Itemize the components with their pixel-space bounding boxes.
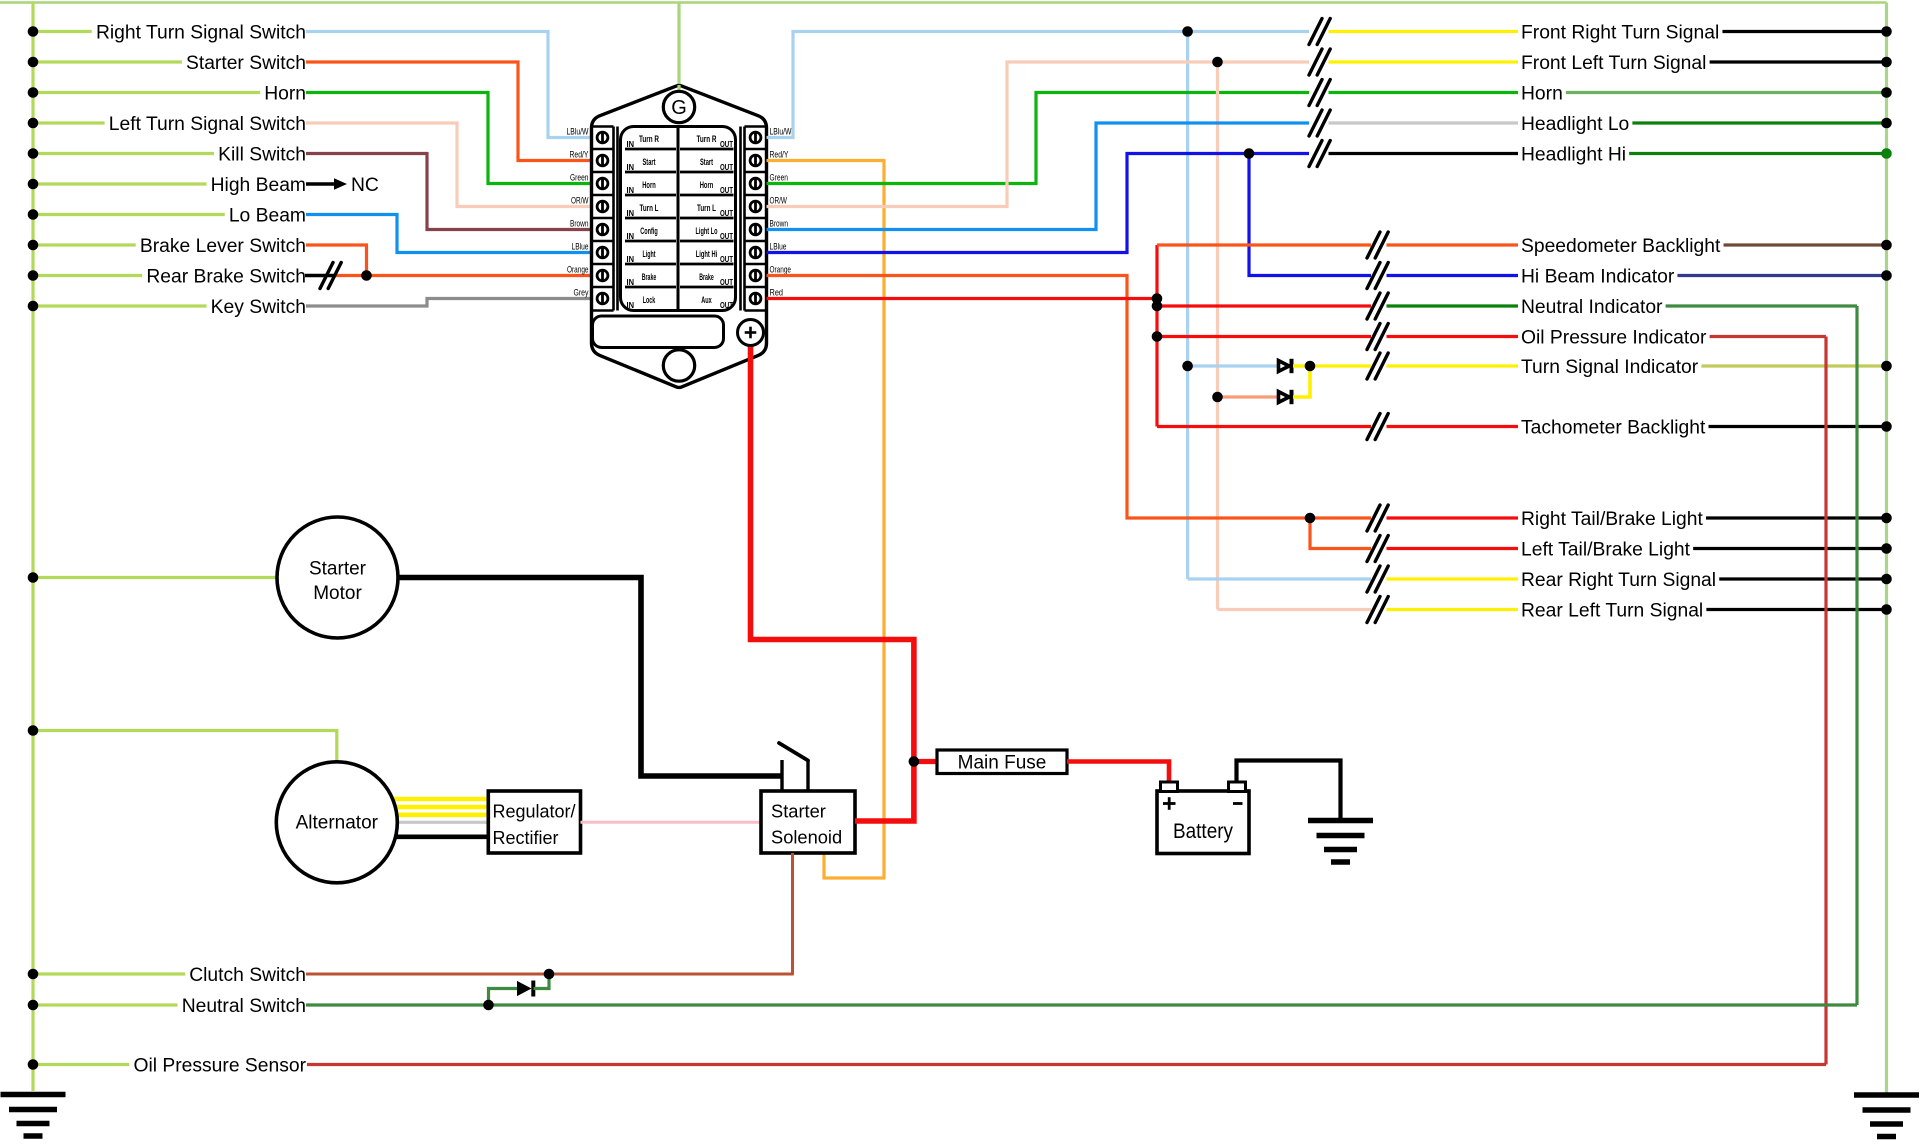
- svg-text:LBlue: LBlue: [572, 241, 589, 251]
- wire: Start OUT (Red/Y) to starter solenoid: [767, 161, 885, 879]
- junction on left rail (Clutch Switch): [28, 969, 39, 980]
- svg-text:Light Lo: Light Lo: [696, 226, 718, 236]
- wire: Turn L OUT (OR/W) to front left row: [767, 62, 1310, 207]
- wire color-change marks (Hi Beam Indicator): [1367, 263, 1380, 289]
- wire: to turn signal indicator: [1310, 364, 1371, 367]
- wire: Starter Switch to Start IN (Red/Y): [306, 62, 593, 161]
- svg-text:Orange: Orange: [770, 264, 792, 274]
- wire: Tachometer Backlight to rail: [1709, 425, 1887, 428]
- svg-text:Rear Right Turn Signal: Rear Right Turn Signal: [1521, 570, 1716, 591]
- separator left strip 6: [592, 286, 614, 289]
- wire: Lo Beam to Light IN (LBlue): [306, 215, 593, 253]
- svg-text:Battery: Battery: [1173, 820, 1233, 843]
- wire: ground stub to Left Turn Signal Switch: [33, 121, 105, 124]
- wire: Oil Pressure Indicator to rail: [1710, 335, 1826, 338]
- wire: Aux OUT (Red): [767, 297, 1158, 300]
- screw terminal IN pin 1: [597, 132, 608, 143]
- svg-text:Starter: Starter: [771, 801, 826, 822]
- controller module U1 (hexagonal body): [592, 86, 767, 388]
- svg-text:OUT: OUT: [720, 139, 734, 149]
- row line R0: [680, 148, 734, 151]
- separator left strip 3: [592, 217, 614, 220]
- junction: Tachometer Backlight at right rail: [1881, 421, 1892, 432]
- junction: Horn at right rail: [1881, 87, 1892, 98]
- starter motor M1: [277, 517, 398, 638]
- wire: Right Tail/Brake Light to rail: [1706, 516, 1886, 519]
- wire: to rear right turn signal: [1188, 577, 1371, 580]
- svg-text:Tachometer Backlight: Tachometer Backlight: [1521, 418, 1706, 439]
- separator left strip 1: [592, 171, 614, 174]
- svg-text:OUT: OUT: [720, 300, 734, 310]
- wire: ground stub to Brake Lever Switch: [33, 243, 136, 246]
- wire: Rear Left Turn Signal to rail: [1706, 608, 1886, 611]
- junction: brake lever + rear brake: [361, 270, 372, 281]
- junction: Front Right Turn Signal at right rail: [1881, 26, 1892, 37]
- separator right strip 3: [745, 217, 767, 220]
- U1 mounting hole (bottom circle): [663, 350, 694, 381]
- svg-text:Rear Left Turn Signal: Rear Left Turn Signal: [1521, 601, 1703, 622]
- svg-text:Solenoid: Solenoid: [771, 827, 842, 848]
- wire: into Tachometer Backlight label: [1387, 425, 1519, 428]
- wire: alternator to regulator (black): [392, 834, 488, 839]
- wire: Left Tail/Brake Light to rail: [1693, 547, 1886, 550]
- separator right strip 5: [745, 263, 767, 266]
- junction on left rail (Left Turn Signal Switch): [28, 118, 39, 129]
- svg-text:Horn: Horn: [264, 84, 306, 105]
- row line R1: [680, 171, 734, 174]
- row line R6: [680, 286, 734, 289]
- wire: regulator to solenoid battery sense (pink): [581, 821, 762, 824]
- wire: Light Hi OUT (LBlue) to headlight hi row: [767, 154, 1310, 253]
- row line R4: [680, 240, 734, 243]
- svg-text:IN: IN: [627, 162, 635, 172]
- wire color-change marks (Rear Right Turn Signal): [1367, 566, 1380, 592]
- solenoid switch blade (open): [779, 743, 808, 761]
- wire: OR/W drop to rear left turn: [1216, 62, 1219, 610]
- wire: drop to hi beam indicator: [1249, 154, 1371, 276]
- separator left strip 2: [592, 194, 614, 197]
- wire: main fuse to battery +: [1067, 762, 1169, 784]
- starter solenoid K1: [761, 791, 855, 853]
- battery + mark: [1163, 802, 1176, 805]
- wire: ground stub to Neutral Switch: [33, 1003, 178, 1006]
- left terminal strip of U1: [592, 125, 614, 128]
- separator right strip 1: [745, 171, 767, 174]
- wire: interlock diode link: [489, 989, 518, 1006]
- battery BT1: [1157, 791, 1249, 854]
- arrow: High Beam to NC (not connected): [306, 182, 336, 185]
- wire: into Rear Left Turn Signal label: [1387, 608, 1519, 611]
- right ground bus rail (vertical): [1885, 3, 1888, 1094]
- screw terminal OUT pin 2: [750, 155, 761, 166]
- row line L0: [625, 148, 676, 151]
- wire: oil pressure indicator drop to oil sensor: [1824, 337, 1827, 1065]
- row line L2: [625, 194, 676, 197]
- wire: Brake OUT (Orange) to right tail/brake: [767, 276, 1311, 519]
- wire: neutral switch line: [306, 1003, 1857, 1006]
- wire: to rear left turn signal: [1218, 608, 1372, 611]
- svg-text:Light Hi: Light Hi: [696, 249, 718, 259]
- wire: ground stub to Horn: [33, 91, 260, 94]
- svg-text:Grey: Grey: [574, 287, 589, 297]
- diode D2 (left turn to indicator): [1279, 392, 1290, 403]
- wire: to speedometer backlight: [1157, 243, 1371, 246]
- screw terminal OUT pin 5: [750, 224, 761, 235]
- junction: indicator diodes join: [1305, 361, 1316, 372]
- svg-text:Brake: Brake: [642, 272, 657, 282]
- junction on left rail (Neutral Switch): [28, 1000, 39, 1011]
- wire: Horn OUT (Green) to horn row: [767, 93, 1310, 184]
- wire: red distribution riser: [1155, 245, 1158, 427]
- junction on left rail (Lo Beam): [28, 209, 39, 220]
- U1 function table: [621, 127, 736, 311]
- wire: Horn to Horn IN (Green): [306, 93, 593, 184]
- wire: into Horn label: [1329, 91, 1519, 94]
- junction: front/rear right turn split: [1182, 26, 1193, 37]
- svg-text:IN: IN: [627, 208, 635, 218]
- screw terminal IN pin 2: [597, 155, 608, 166]
- wire: into Headlight Lo label: [1329, 121, 1519, 124]
- wire: Key Switch to Lock IN (Grey): [306, 299, 593, 307]
- screw terminal IN pin 4: [597, 201, 608, 212]
- wire color-change marks (Headlight Lo): [1309, 110, 1322, 136]
- wire: alternator phase 3 (yellow): [390, 812, 488, 817]
- svg-text:Brown: Brown: [570, 218, 589, 228]
- wire: to oil pressure indicator: [1157, 335, 1371, 338]
- svg-text:Rear Brake Switch: Rear Brake Switch: [146, 267, 306, 288]
- junction: neutral / interlock diode: [483, 1000, 494, 1011]
- junction: headlight hi / hi beam indicator: [1244, 148, 1255, 159]
- screw terminal OUT pin 7: [750, 270, 761, 281]
- wire: junction to main fuse: [914, 759, 937, 764]
- wire color-change marks (Tachometer Backlight): [1367, 414, 1380, 440]
- junction: Headlight Hi at right rail: [1881, 148, 1892, 159]
- svg-text:Starter: Starter: [309, 559, 367, 580]
- svg-text:Oil Pressure Indicator: Oil Pressure Indicator: [1521, 328, 1707, 349]
- main fuse F1: [937, 750, 1067, 774]
- svg-text:Clutch Switch: Clutch Switch: [189, 965, 306, 986]
- wire: D2 to indicator net: [1293, 366, 1310, 397]
- wire: into Front Right Turn Signal label: [1329, 30, 1519, 33]
- svg-text:Horn: Horn: [700, 180, 714, 190]
- svg-text:Start: Start: [700, 157, 713, 167]
- row line R2: [680, 194, 734, 197]
- wire: into Hi Beam Indicator label: [1387, 274, 1519, 277]
- screw terminal OUT pin 8: [750, 293, 761, 304]
- screw terminal IN pin 5: [597, 224, 608, 235]
- wire: to tachometer backlight: [1157, 425, 1371, 428]
- svg-text:IN: IN: [627, 139, 635, 149]
- screw terminal OUT pin 3: [750, 178, 761, 189]
- junction on left rail (Right Turn Signal Switch): [28, 26, 39, 37]
- wire: ground stub to Key Switch: [33, 304, 207, 307]
- junction on left rail (Brake Lever Switch): [28, 240, 39, 251]
- wire: to neutral indicator: [1157, 304, 1371, 307]
- solenoid switch contact stubs: [780, 760, 783, 791]
- junction: Left Tail/Brake Light at right rail: [1881, 543, 1892, 554]
- wire: into Neutral Indicator label: [1387, 304, 1519, 307]
- wire: Turn Signal Indicator to rail: [1701, 364, 1886, 367]
- screw terminal IN pin 3: [597, 178, 608, 189]
- wire: Headlight Hi to rail: [1629, 152, 1886, 155]
- svg-text:Start: Start: [643, 157, 656, 167]
- junction: Front Left Turn Signal at right rail: [1881, 57, 1892, 68]
- wire: ground stub to Kill Switch: [33, 152, 214, 155]
- svg-text:Headlight Lo: Headlight Lo: [1521, 114, 1629, 135]
- wire: ground stub to High Beam: [33, 182, 207, 185]
- svg-text:OUT: OUT: [720, 231, 734, 241]
- junction: red riser / neutral indicator: [1152, 301, 1163, 312]
- row line L5: [625, 263, 676, 266]
- wire color-change marks (Right Tail/Brake Light): [1367, 505, 1380, 531]
- wire: Rear Brake Switch to Brake IN (Orange): [336, 274, 593, 277]
- wire: clutch switch to solenoid coil: [306, 973, 794, 976]
- wire: into Headlight Hi label: [1329, 152, 1519, 155]
- svg-text:Speedometer Backlight: Speedometer Backlight: [1521, 236, 1721, 257]
- wire color-change marks (Left Tail/Brake Light): [1367, 536, 1380, 562]
- wire: controller + terminal to solenoid/battery (heavy red): [751, 346, 914, 822]
- wire: Front Right Turn Signal to rail: [1722, 30, 1886, 33]
- junction: clutch / start-interlock diode: [544, 969, 555, 980]
- separator right strip 6: [745, 286, 767, 289]
- wire color-change marks on Rear Brake Switch wire: [320, 263, 333, 289]
- ground symbol (right rail): [1854, 1092, 1919, 1097]
- screw terminal OUT pin 6: [750, 247, 761, 258]
- screw terminal OUT pin 4: [750, 201, 761, 212]
- svg-text:NC: NC: [351, 175, 379, 196]
- wire: Headlight Lo to rail: [1632, 121, 1886, 124]
- svg-text:Alternator: Alternator: [296, 813, 379, 834]
- wire: ground stub to Lo Beam: [33, 213, 225, 216]
- wire: into Left Tail/Brake Light label: [1387, 547, 1519, 550]
- svg-text:Turn R: Turn R: [697, 134, 717, 144]
- wire: alternator phase 1 (yellow): [390, 797, 488, 802]
- svg-text:Brake: Brake: [699, 272, 714, 282]
- svg-text:Kill Switch: Kill Switch: [218, 145, 306, 166]
- junction: Rear Left Turn Signal at right rail: [1881, 604, 1892, 615]
- wire: ground stub to Right Turn Signal Switch: [33, 30, 92, 33]
- svg-text:Left Turn Signal Switch: Left Turn Signal Switch: [109, 114, 306, 135]
- svg-text:Neutral Indicator: Neutral Indicator: [1521, 297, 1663, 318]
- wire: Horn to rail: [1566, 91, 1887, 94]
- wire: Left Turn Signal Switch to Turn L IN (OR/W): [306, 123, 593, 207]
- svg-text:OUT: OUT: [720, 254, 734, 264]
- wire color-change marks (Turn Signal Indicator): [1367, 353, 1380, 379]
- svg-text:Red/Y: Red/Y: [570, 149, 589, 159]
- svg-text:Turn L: Turn L: [697, 203, 716, 213]
- junction: red riser / oil pressure indicator: [1152, 331, 1163, 342]
- wire: ground stub to alternator: [33, 731, 337, 771]
- screw terminal IN pin 6: [597, 247, 608, 258]
- svg-text:Brake Lever Switch: Brake Lever Switch: [140, 236, 306, 257]
- svg-text:Turn Signal Indicator: Turn Signal Indicator: [1521, 357, 1699, 378]
- svg-text:OUT: OUT: [720, 162, 734, 172]
- svg-text:OUT: OUT: [720, 185, 734, 195]
- junction: tail/brake split: [1305, 513, 1316, 524]
- svg-text:IN: IN: [627, 185, 635, 195]
- svg-text:Headlight Hi: Headlight Hi: [1521, 145, 1626, 166]
- screw terminal IN pin 8: [597, 293, 608, 304]
- screw terminal OUT pin 1: [750, 132, 761, 143]
- junction on left rail (Horn): [28, 87, 39, 98]
- junction: rail / alternator: [28, 725, 39, 736]
- wire color-change marks (Front Left Turn Signal): [1309, 49, 1322, 75]
- wire: battery - to ground: [1237, 761, 1341, 819]
- wire: diode D3 to clutch line: [534, 974, 550, 989]
- junction: Hi Beam Indicator at right rail: [1881, 270, 1892, 281]
- svg-text:OR/W: OR/W: [770, 195, 788, 205]
- regulator/rectifier U2: [488, 791, 580, 853]
- left ground bus rail (vertical): [31, 3, 34, 1092]
- junction on left rail (High Beam): [28, 179, 39, 190]
- svg-text:LBlue: LBlue: [770, 241, 787, 251]
- wire color-change marks (Neutral Indicator): [1367, 293, 1380, 319]
- diode D1 (right turn to indicator): [1279, 361, 1290, 372]
- svg-text:High Beam: High Beam: [211, 175, 306, 196]
- wire: Speedometer Backlight to rail: [1724, 243, 1887, 246]
- svg-text:OUT: OUT: [720, 277, 734, 287]
- row line L4: [625, 240, 676, 243]
- junction: Speedometer Backlight at right rail: [1881, 240, 1892, 251]
- wire: Rear Right Turn Signal to rail: [1719, 577, 1886, 580]
- junction on left rail (Kill Switch): [28, 148, 39, 159]
- junction on left rail (Oil Pressure Sensor): [28, 1059, 39, 1070]
- svg-text:IN: IN: [627, 254, 635, 264]
- svg-text:LBlu/W: LBlu/W: [567, 126, 589, 136]
- svg-text:LBlu/W: LBlu/W: [770, 126, 792, 136]
- wire: solenoid coil to clutch switch (brown): [791, 853, 794, 974]
- wire: oil pressure sensor line: [307, 1063, 1826, 1066]
- svg-text:Turn R: Turn R: [639, 134, 659, 144]
- wire: D1 to indicator net: [1293, 364, 1310, 368]
- svg-text:OUT: OUT: [720, 208, 734, 218]
- separator right strip 0: [745, 148, 767, 151]
- wire: into Speedometer Backlight label: [1387, 243, 1519, 246]
- svg-text:Key Switch: Key Switch: [211, 297, 306, 318]
- junction: Headlight Lo at right rail: [1881, 118, 1892, 129]
- row line L3: [625, 217, 676, 220]
- separator right strip 4: [745, 240, 767, 243]
- wire: ground drop overlay to G: [677, 85, 680, 93]
- wire: ground stub to Oil Pressure Sensor: [33, 1063, 129, 1066]
- wire: starter motor to solenoid switch (heavy black): [390, 578, 782, 777]
- wire: Kill Switch to Config IN (Brown): [306, 154, 593, 230]
- wire: ground stub to starter motor: [33, 576, 290, 579]
- wire: neutral indicator drop to neutral switch: [1855, 306, 1858, 1005]
- svg-text:Horn: Horn: [1521, 84, 1563, 105]
- junction on left rail (Key Switch): [28, 301, 39, 312]
- separator left strip 5: [592, 263, 614, 266]
- wire: Right Turn Signal Switch to Turn R IN (LBlu/W): [306, 32, 593, 138]
- wire: into Rear Right Turn Signal label: [1387, 577, 1519, 580]
- row line R3: [680, 217, 734, 220]
- wire: into right tail slash: [1310, 516, 1371, 519]
- svg-text:Right Tail/Brake Light: Right Tail/Brake Light: [1521, 509, 1703, 530]
- junction: battery feed / main fuse: [909, 756, 920, 767]
- wire: Turn R OUT (LBlu/W) up to front right row: [767, 32, 1310, 138]
- separator left strip 4: [592, 240, 614, 243]
- wire: into Oil Pressure Indicator label: [1387, 335, 1519, 338]
- junction: Right Tail/Brake Light at right rail: [1881, 513, 1892, 524]
- svg-text:IN: IN: [627, 277, 635, 287]
- svg-text:Green: Green: [770, 172, 789, 182]
- junction on left rail (Rear Brake Switch): [28, 270, 39, 281]
- wire color-change marks (Front Right Turn Signal): [1309, 19, 1322, 45]
- alternator G1: [276, 762, 397, 883]
- wire: Front Left Turn Signal to rail: [1710, 60, 1887, 63]
- wire: ground drop to controller G terminal: [677, 3, 680, 94]
- svg-text:Lock: Lock: [643, 295, 656, 305]
- svg-text:Red/Y: Red/Y: [770, 149, 789, 159]
- ground symbol (left rail): [1, 1092, 66, 1097]
- junction: red riser / aux out: [1152, 293, 1163, 304]
- terminal + (battery feed pin): [738, 320, 764, 346]
- wire: ground stub to Clutch Switch: [33, 972, 185, 975]
- svg-text:Starter Switch: Starter Switch: [186, 53, 306, 74]
- svg-text:IN: IN: [627, 300, 635, 310]
- wire: Brake Lever Switch to junction: [306, 245, 367, 276]
- row line R5: [680, 263, 734, 266]
- battery - mark: [1233, 802, 1243, 805]
- junction on left rail (Starter Switch): [28, 57, 39, 68]
- junction: front/rear left turn split: [1212, 57, 1223, 68]
- separator left strip 0: [592, 148, 614, 151]
- svg-text:Light: Light: [643, 249, 656, 259]
- border: top horizontal pale green: [0, 1, 1887, 4]
- svg-text:OR/W: OR/W: [571, 195, 589, 205]
- svg-text:Brown: Brown: [770, 218, 789, 228]
- separator right strip 2: [745, 194, 767, 197]
- wire: Rear Brake Switch black segment: [305, 274, 336, 277]
- junction: Turn Signal Indicator at right rail: [1881, 361, 1892, 372]
- wire: LBlu/W drop to rear right turn: [1186, 32, 1189, 580]
- svg-text:IN: IN: [627, 231, 635, 241]
- svg-text:Motor: Motor: [313, 583, 362, 604]
- junction: left turn tap for indicator: [1212, 392, 1223, 403]
- screw terminal IN pin 7: [597, 270, 608, 281]
- wire color-change marks (Rear Left Turn Signal): [1367, 597, 1380, 623]
- svg-text:Horn: Horn: [642, 180, 656, 190]
- svg-text:Lo Beam: Lo Beam: [229, 206, 306, 227]
- svg-text:Regulator/: Regulator/: [493, 802, 576, 822]
- junction: Rear Right Turn Signal at right rail: [1881, 574, 1892, 585]
- wire: right turn to diode D1: [1188, 364, 1278, 367]
- svg-text:Hi Beam Indicator: Hi Beam Indicator: [1521, 267, 1675, 288]
- svg-text:Orange: Orange: [567, 264, 589, 274]
- wire: ground stub to Rear Brake Switch: [33, 274, 142, 277]
- svg-text:Green: Green: [570, 172, 589, 182]
- svg-text:Front Right Turn Signal: Front Right Turn Signal: [1521, 23, 1719, 44]
- wire: alternator sense (grey): [392, 821, 488, 824]
- wire: Light Lo OUT (Brown) to headlight lo row: [767, 123, 1310, 230]
- svg-text:Neutral Switch: Neutral Switch: [182, 996, 306, 1017]
- diode D3 (neutral interlock): [517, 981, 532, 996]
- wire: ground stub to Starter Switch: [33, 60, 182, 63]
- right terminal strip of U1: [745, 125, 767, 128]
- svg-text:Left Tail/Brake Light: Left Tail/Brake Light: [1521, 540, 1691, 561]
- svg-text:Front Left Turn Signal: Front Left Turn Signal: [1521, 53, 1706, 74]
- wire: Neutral Indicator to rail: [1666, 304, 1857, 307]
- wire: into Right Tail/Brake Light label: [1387, 516, 1519, 519]
- wire: into Front Left Turn Signal label: [1329, 60, 1519, 63]
- junction: rail / starter motor: [28, 572, 39, 583]
- wire color-change marks (Headlight Hi): [1309, 141, 1322, 167]
- svg-text:Red: Red: [770, 287, 784, 297]
- svg-text:Rectifier: Rectifier: [493, 828, 559, 848]
- svg-text:G: G: [671, 97, 687, 119]
- wire color-change marks (Speedometer Backlight): [1367, 232, 1380, 258]
- svg-text:Right Turn Signal Switch: Right Turn Signal Switch: [96, 23, 306, 44]
